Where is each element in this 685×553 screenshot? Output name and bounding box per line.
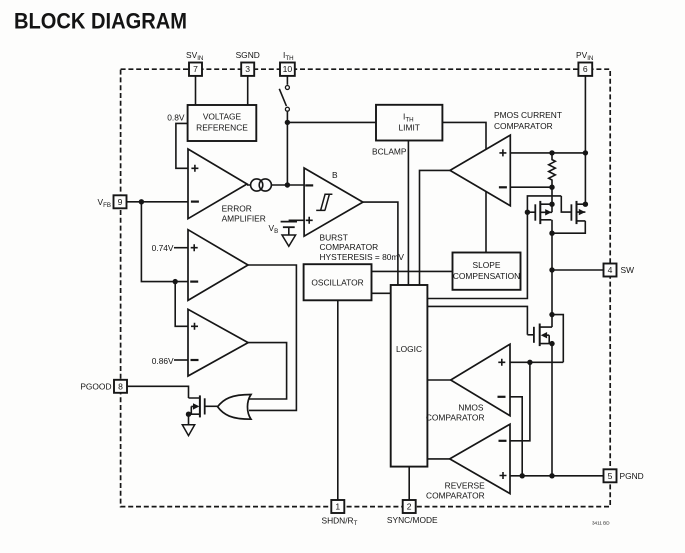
svg-text:0.86V: 0.86V [152,356,174,366]
wire 0.8V reference to error amp + input [176,123,188,168]
wire LOGIC output to NMOS gate [427,306,527,334]
wire 0.74V label stub [174,247,188,249]
wire resistor node to left PMOS source [551,187,553,212]
wire pin2 SYNC/MODE to LOGIC [408,467,410,500]
wire reverse comparator - input to NMOS + node [510,362,530,441]
svg-text:LIMIT: LIMIT [398,123,419,133]
pin 7 SVIN [186,50,203,76]
pin 1 SHDN/RT [322,500,358,527]
dashed IC boundary [121,69,611,506]
wire 0.86V comparator output to OR gate [248,343,287,399]
wire reverse comparator output to LOGIC [427,458,449,460]
svg-text:SGND: SGND [236,50,260,60]
burst comparator B [304,168,404,262]
wire BCLAMP: ITH LIMIT bottom to LOGIC [407,141,409,286]
wire LOGIC output to PMOS gates [427,212,527,298]
svg-text:0.8V: 0.8V [167,112,185,122]
logic box [391,285,428,467]
svg-text:PMOS CURRENT: PMOS CURRENT [494,110,562,120]
svg-text:PGOOD: PGOOD [80,382,111,392]
svg-text:COMPARATOR: COMPARATOR [494,121,553,131]
wire small NMOS gate lead [527,334,534,336]
svg-text:BCLAMP: BCLAMP [372,146,407,156]
svg-text:COMPENSATION: COMPENSATION [453,271,520,281]
wire ITH node to ITH LIMIT input [287,121,376,123]
pin 5 PGND [604,469,644,482]
svg-text:6: 6 [583,64,588,74]
wire right PMOS drain loop to SW node [552,221,585,233]
wire NMOS comparator - input to PGND line [510,397,522,476]
svg-text:8: 8 [118,382,123,392]
svg-text:9: 9 [118,197,123,207]
wire SW pin to SW node [552,269,604,271]
svg-text:COMPARATOR: COMPARATOR [426,413,485,423]
ITH LIMIT box U2 [376,105,442,141]
wire oscillator to slope compensation [372,270,453,272]
wire switch to ITH node [286,112,288,123]
wire ITH LIMIT output to slope compensation (passes behind comparator) [442,122,486,252]
wire NMOS comparator + input line [510,361,563,363]
OR gate driving PGOOD FET [218,395,251,420]
wire PMOS comparator + input line to PVIN [510,152,585,154]
NMOS comparator [426,344,510,422]
wire left PMOS drain down SW node [551,220,553,327]
wire pin3 to voltage reference [247,76,249,106]
pin 6 PVIN [576,50,593,76]
svg-text:VOLTAGE: VOLTAGE [203,112,242,122]
svg-text:HYSTERESIS = 80mV: HYSTERESIS = 80mV [320,252,405,262]
wire pin10 to switch [286,76,288,85]
svg-text:COMPARATOR: COMPARATOR [320,242,379,252]
pin 4 SW [604,264,635,277]
svg-text:SW: SW [621,265,635,275]
svg-text:REVERSE: REVERSE [445,481,485,491]
wire pin7 to voltage reference [195,76,197,106]
svg-text:BLOCK DIAGRAM: BLOCK DIAGRAM [14,9,187,34]
switch on ITH pin [279,86,289,112]
wire VFB node down to 0.74V comparator - input [141,202,188,282]
sense resistor R1 [549,153,556,187]
comparator 0.86V (power good high) [188,309,248,376]
wire PGOOD pin to pull-down FET drain [127,386,189,398]
wire ITH node down to error amp output [286,122,288,185]
PMOS current comparator [450,110,562,206]
pin 2 SYNC/MODE [387,500,438,525]
wire pin1 SHDN/RT to oscillator [337,300,339,500]
wire ITH node to burst - input [287,184,304,186]
wire node down to 0.86V comparator + input [175,282,188,327]
pin 10 ITH [280,50,295,76]
wire burst + input to VB [289,219,305,221]
svg-text:1: 1 [335,502,340,512]
reverse comparator [426,424,510,500]
wire error amp output to burst comparator - input [247,184,287,186]
wire small NMOS source down to PGND line [551,344,553,476]
voltage reference box [188,105,257,141]
transistor Q3 small NMOS at SW [534,324,552,347]
svg-text:0.74V: 0.74V [152,243,174,253]
svg-text:4: 4 [608,265,613,275]
svg-text:5: 5 [608,471,613,481]
svg-text:2: 2 [407,502,412,512]
pin 8 PGOOD [80,380,127,393]
slope compensation box [453,253,521,290]
wire 0.74V comparator output to OR gate [248,265,296,410]
svg-text:3411 BD: 3411 BD [592,521,610,526]
transistor Q1 left PMOS power switch [527,201,552,224]
hysteresis symbol [316,194,332,210]
svg-text:BURST: BURST [320,232,348,242]
svg-text:REFERENCE: REFERENCE [196,123,248,133]
VB bias source and ground [269,222,298,247]
wire 0.86V label stub [174,359,188,361]
pin 9 VFB [97,195,126,209]
svg-text:10: 10 [283,64,293,74]
svg-text:SLOPE: SLOPE [473,260,501,270]
oscillator box [304,264,372,300]
svg-text:PGND: PGND [620,471,644,481]
svg-text:NMOS: NMOS [458,403,484,413]
pin 3 SGND [236,50,260,76]
wire PGND line to pin 5 [510,475,604,477]
svg-text:LOGIC: LOGIC [396,344,422,354]
svg-text:3: 3 [245,64,250,74]
wire NMOS comparator output to LOGIC [427,379,450,381]
wire burst comparator output to LOGIC [363,202,398,285]
ground under PGOOD FET [182,414,194,435]
wire PMOS comparator - input line to sense resistor [510,186,552,188]
svg-text:ERROR: ERROR [222,204,252,214]
current source at error amp output [251,179,272,191]
svg-text:AMPLIFIER: AMPLIFIER [222,214,266,224]
svg-text:COMPARATOR: COMPARATOR [426,490,485,500]
transistor Q2 right PMOS sense switch [527,196,585,224]
transistor Q4 PGOOD pull-down NMOS [189,395,219,417]
svg-text:OSCILLATOR: OSCILLATOR [311,278,363,288]
wire PMOS comparator output to LOGIC [420,170,451,285]
wire VFB pin to error amp - input [127,201,189,203]
svg-text:7: 7 [193,64,198,74]
wire small NMOS drain loop to NMOS comparator + input [552,315,563,363]
svg-text:B: B [332,170,338,180]
svg-text:SYNC/MODE: SYNC/MODE [387,515,438,525]
wire oscillator to LOGIC [372,292,391,294]
op-amp error amplifier [188,149,266,224]
wire PVIN pin down to PMOS source [584,76,586,205]
comparator 0.74V (power good low) [188,230,248,301]
junction dots [285,120,290,125]
